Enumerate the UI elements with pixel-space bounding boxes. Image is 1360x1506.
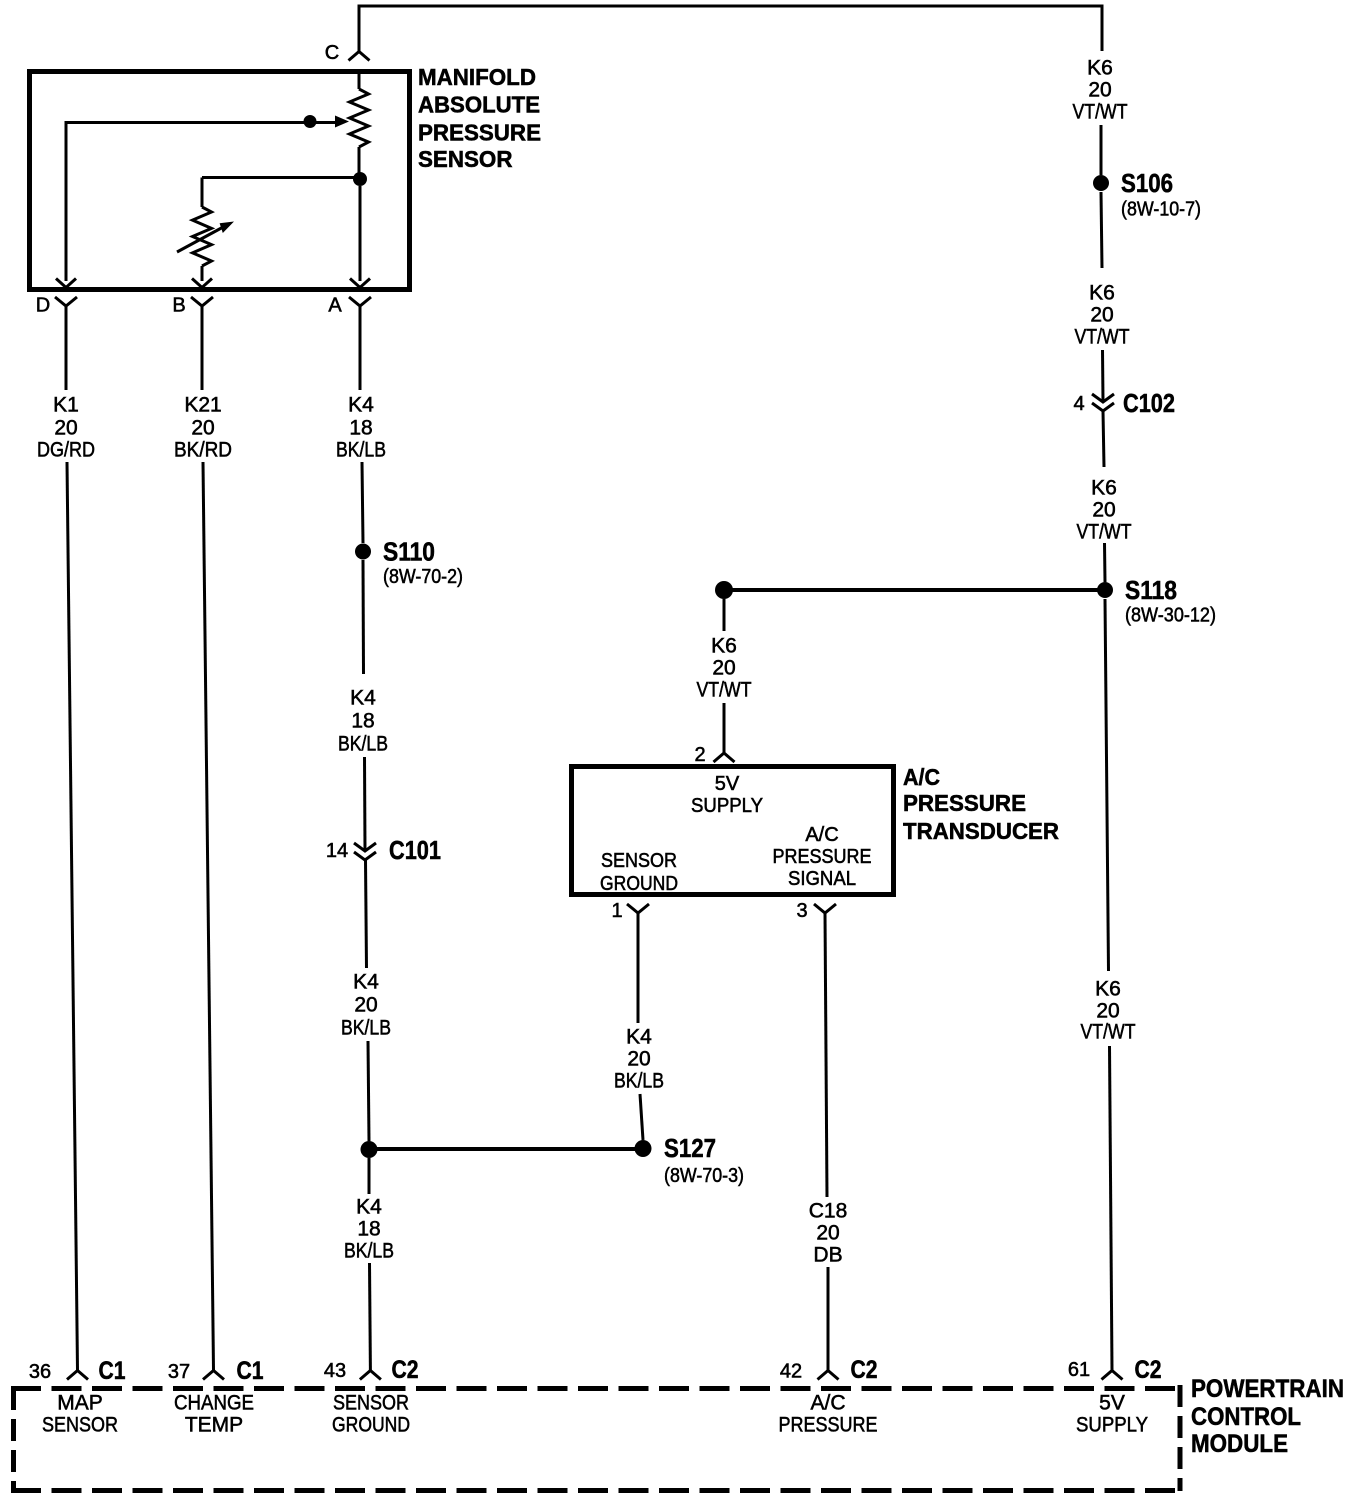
pin 2 xyxy=(694,744,734,766)
svg-text:GROUND: GROUND xyxy=(600,873,678,895)
PCM pin 61 C2 xyxy=(1068,1356,1162,1384)
svg-text:A/C: A/C xyxy=(810,1392,845,1415)
pin A inner arrowhead xyxy=(350,279,370,288)
svg-text:PRESSURE: PRESSURE xyxy=(779,1414,878,1437)
powertrain control module box (dashed) xyxy=(11,1385,1180,1491)
svg-text:SUPPLY: SUPPLY xyxy=(1076,1414,1148,1437)
wire resistor to node A xyxy=(358,147,361,179)
svg-text:S118: S118 xyxy=(1125,575,1177,605)
svg-text:K6: K6 xyxy=(1087,57,1113,80)
wire pin D stub xyxy=(65,306,68,390)
junction on wiper wire xyxy=(304,115,317,128)
svg-text:PRESSURE: PRESSURE xyxy=(773,846,872,868)
svg-text:ABSOLUTE: ABSOLUTE xyxy=(418,92,540,118)
A/C pressure transducer box xyxy=(572,767,894,895)
svg-text:A: A xyxy=(328,295,342,317)
PCM pin 42 C2 xyxy=(780,1356,878,1384)
PCM SENSOR GROUND terminal label xyxy=(332,1392,410,1437)
svg-text:20: 20 xyxy=(54,417,77,440)
wire to S127 junction xyxy=(368,1041,369,1141)
svg-text:SIGNAL: SIGNAL xyxy=(788,868,856,890)
splice S127 xyxy=(635,1133,745,1187)
thermistor arrow xyxy=(177,222,234,253)
transducer SENSOR GROUND terminal label xyxy=(600,850,678,895)
wire to PCM pin 61 xyxy=(1110,1046,1113,1370)
wire label K4 18 BK/LB (above PCM) xyxy=(344,1196,394,1263)
potentiometer (MAP sensing element) xyxy=(350,89,369,147)
wire label K6 20 VT/WT (branch) xyxy=(697,635,752,702)
svg-text:S127: S127 xyxy=(664,1133,716,1163)
PCM A/C PRESSURE terminal label xyxy=(779,1392,878,1437)
svg-text:(8W-10-7): (8W-10-7) xyxy=(1121,199,1201,221)
svg-text:20: 20 xyxy=(712,657,735,680)
svg-text:SENSOR: SENSOR xyxy=(333,1392,409,1415)
wire S118 to transducer branch xyxy=(724,588,1105,592)
svg-text:K4: K4 xyxy=(350,687,376,710)
wire D riser inside MAP box xyxy=(65,121,68,281)
svg-text:BK/LB: BK/LB xyxy=(338,733,388,756)
svg-text:K21: K21 xyxy=(184,394,221,417)
svg-text:K6: K6 xyxy=(1089,282,1115,305)
svg-text:VT/WT: VT/WT xyxy=(1073,101,1128,124)
splice S110 xyxy=(355,537,463,589)
pin D inner arrowhead xyxy=(56,279,76,288)
wire S110 down xyxy=(362,560,366,674)
svg-text:BK/LB: BK/LB xyxy=(341,1017,391,1040)
svg-text:GROUND: GROUND xyxy=(332,1414,410,1437)
pin C xyxy=(325,42,370,64)
svg-text:36: 36 xyxy=(29,1361,51,1383)
svg-text:BK/LB: BK/LB xyxy=(344,1240,394,1263)
svg-text:VT/WT: VT/WT xyxy=(697,679,752,702)
svg-text:A/C: A/C xyxy=(805,824,838,846)
svg-text:VT/WT: VT/WT xyxy=(1081,1021,1136,1044)
pin D xyxy=(36,295,77,317)
svg-text:K4: K4 xyxy=(626,1026,652,1049)
wire label C18 20 DB xyxy=(809,1200,848,1267)
thermistor (temperature sensing element) xyxy=(193,207,212,266)
PCM CHANGE TEMP terminal label xyxy=(174,1392,254,1437)
wire below S127 junction xyxy=(368,1158,371,1194)
wire label K6 20 VT/WT (top) xyxy=(1073,57,1128,124)
junction at transducer branch xyxy=(715,581,733,599)
svg-text:K4: K4 xyxy=(348,394,374,417)
svg-text:S110: S110 xyxy=(383,537,435,567)
svg-text:K6: K6 xyxy=(711,635,737,658)
svg-text:(8W-70-2): (8W-70-2) xyxy=(383,566,463,588)
svg-text:37: 37 xyxy=(168,1361,190,1383)
svg-text:4: 4 xyxy=(1073,393,1084,415)
splice S118 xyxy=(1097,575,1216,627)
wire to connector C101 xyxy=(363,757,367,850)
connector C101 xyxy=(326,835,441,865)
PCM pin 37 C1 xyxy=(168,1357,264,1385)
wire to connector C102 xyxy=(1101,350,1105,401)
wire thermistor to pin B xyxy=(201,266,204,281)
svg-text:DB: DB xyxy=(813,1244,842,1267)
wire to PCM pin 43 xyxy=(368,1263,372,1370)
wire to transducer pin 2 xyxy=(723,703,726,753)
PCM name label xyxy=(1191,1375,1344,1458)
svg-text:DG/RD: DG/RD xyxy=(37,439,95,462)
svg-text:PRESSURE: PRESSURE xyxy=(418,119,541,145)
pin B inner arrowhead xyxy=(192,279,212,288)
svg-text:C2: C2 xyxy=(1135,1356,1162,1384)
pin A xyxy=(328,295,371,317)
svg-text:20: 20 xyxy=(354,994,377,1017)
svg-text:TEMP: TEMP xyxy=(185,1414,243,1437)
svg-text:BK/LB: BK/LB xyxy=(336,439,386,462)
svg-text:C102: C102 xyxy=(1123,388,1175,418)
svg-text:S106: S106 xyxy=(1121,168,1173,198)
svg-text:SENSOR: SENSOR xyxy=(601,850,677,872)
svg-text:K4: K4 xyxy=(356,1196,382,1219)
svg-text:K1: K1 xyxy=(53,394,79,417)
junction at S127 (left) xyxy=(361,1141,378,1158)
svg-text:18: 18 xyxy=(351,710,374,733)
svg-text:SENSOR: SENSOR xyxy=(42,1414,118,1437)
PCM pin 43 C2 xyxy=(324,1356,419,1384)
svg-text:MANIFOLD: MANIFOLD xyxy=(418,64,536,90)
wire label K21 20 BK/RD xyxy=(174,394,232,462)
transducer A/C PRESSURE SIGNAL terminal label xyxy=(773,824,872,890)
svg-text:(8W-70-3): (8W-70-3) xyxy=(664,1165,744,1187)
svg-text:C2: C2 xyxy=(392,1356,419,1384)
wire C102 down xyxy=(1103,411,1104,467)
svg-text:VT/WT: VT/WT xyxy=(1075,326,1130,349)
svg-text:MAP: MAP xyxy=(57,1392,103,1415)
wire label K4 20 BK/LB (below C101) xyxy=(341,971,391,1040)
wire label K4 20 BK/LB (pin 1) xyxy=(614,1026,664,1093)
svg-text:C1: C1 xyxy=(99,1357,126,1385)
pin 3 xyxy=(796,900,836,922)
svg-text:BK/RD: BK/RD xyxy=(174,439,232,462)
splice S106 xyxy=(1093,168,1201,221)
svg-text:20: 20 xyxy=(1090,304,1113,327)
svg-text:VT/WT: VT/WT xyxy=(1077,521,1132,544)
svg-text:18: 18 xyxy=(349,417,372,440)
wire S127 horizontal run xyxy=(369,1147,643,1151)
svg-text:1: 1 xyxy=(611,900,622,922)
wire label K4 18 BK/LB xyxy=(336,394,386,462)
wire MAP pin B to PCM pin 37 xyxy=(203,462,214,1370)
PCM MAP SENSOR terminal label xyxy=(42,1392,118,1437)
wire label K1 20 DG/RD xyxy=(37,394,95,462)
svg-text:20: 20 xyxy=(1092,499,1115,522)
svg-text:20: 20 xyxy=(816,1222,839,1245)
svg-text:BK/LB: BK/LB xyxy=(614,1070,664,1093)
wire C101 down xyxy=(366,860,367,968)
svg-text:C1: C1 xyxy=(237,1357,264,1385)
PCM 5V SUPPLY terminal label xyxy=(1076,1392,1148,1437)
A/C pressure transducer name label xyxy=(903,764,1059,844)
connector C102 xyxy=(1073,388,1175,418)
svg-text:20: 20 xyxy=(1096,1000,1119,1023)
wire label K6 20 VT/WT (bottom) xyxy=(1081,978,1136,1044)
svg-text:61: 61 xyxy=(1068,1359,1090,1381)
svg-text:A/C: A/C xyxy=(903,764,940,790)
svg-text:K6: K6 xyxy=(1091,477,1117,500)
manifold absolute pressure sensor box xyxy=(30,72,410,290)
wire MAP pin D to PCM pin 36 xyxy=(67,462,78,1370)
wire S106 down xyxy=(1101,192,1102,268)
svg-text:CHANGE: CHANGE xyxy=(174,1392,254,1415)
svg-text:20: 20 xyxy=(627,1048,650,1071)
pin 1 xyxy=(611,900,649,922)
pin B xyxy=(172,295,213,317)
svg-text:SENSOR: SENSOR xyxy=(418,146,513,172)
wire pin 3 down xyxy=(825,913,827,1197)
svg-text:CONTROL: CONTROL xyxy=(1191,1403,1301,1431)
svg-text:(8W-30-12): (8W-30-12) xyxy=(1125,605,1216,627)
wire node to B branch xyxy=(202,176,360,179)
svg-text:5V: 5V xyxy=(1099,1392,1125,1415)
junction node A-B xyxy=(353,172,367,186)
MAP sensor name label xyxy=(418,64,541,172)
svg-text:K4: K4 xyxy=(353,971,379,994)
svg-text:42: 42 xyxy=(780,1361,802,1383)
wire to splice S106 xyxy=(1100,125,1103,175)
svg-text:C18: C18 xyxy=(809,1200,848,1223)
svg-text:2: 2 xyxy=(694,744,705,766)
wire pin A stub xyxy=(359,306,362,390)
wire pin 3 to PCM pin 42 xyxy=(827,1267,830,1370)
wiper arrowhead xyxy=(335,116,349,128)
wire node to pin A xyxy=(359,186,362,281)
wire B branch drop xyxy=(201,178,204,208)
wire label K6 20 VT/WT (second) xyxy=(1075,282,1130,349)
svg-text:K6: K6 xyxy=(1095,978,1121,1001)
wire pin 1 down xyxy=(637,913,640,1023)
svg-text:B: B xyxy=(172,295,185,317)
wire from MAP pin C to right column (top run) xyxy=(359,6,1102,52)
wire branch down to label xyxy=(723,599,726,631)
svg-text:MODULE: MODULE xyxy=(1191,1430,1288,1458)
svg-text:SUPPLY: SUPPLY xyxy=(691,795,763,817)
wire label K4 18 BK/LB (below S110) xyxy=(338,687,388,756)
svg-text:3: 3 xyxy=(796,900,807,922)
svg-text:20: 20 xyxy=(1088,79,1111,102)
svg-text:C101: C101 xyxy=(389,835,441,865)
svg-text:TRANSDUCER: TRANSDUCER xyxy=(903,818,1059,844)
svg-text:PRESSURE: PRESSURE xyxy=(903,790,1026,816)
svg-text:18: 18 xyxy=(357,1218,380,1241)
wire S118 down long run xyxy=(1105,599,1109,971)
wire pin B stub xyxy=(201,306,204,390)
PCM pin 36 C1 xyxy=(29,1357,126,1385)
wire label K6 20 VT/WT (third) xyxy=(1077,477,1132,544)
svg-text:C: C xyxy=(325,42,339,64)
wire box top to potentiometer xyxy=(358,72,361,89)
svg-text:C2: C2 xyxy=(851,1356,878,1384)
transducer 5V SUPPLY terminal label xyxy=(691,773,763,817)
wire pin 1 to splice S127 xyxy=(640,1094,643,1140)
svg-text:14: 14 xyxy=(326,840,348,862)
wire to splice S118 xyxy=(1103,543,1107,582)
svg-text:POWERTRAIN: POWERTRAIN xyxy=(1191,1375,1344,1403)
wire wiper horizontal inside MAP box xyxy=(66,121,340,124)
svg-text:5V: 5V xyxy=(715,773,740,795)
svg-text:43: 43 xyxy=(324,1360,346,1382)
svg-text:20: 20 xyxy=(191,417,214,440)
wire MAP pin A to splice S110 xyxy=(362,462,363,543)
svg-text:D: D xyxy=(36,295,50,317)
